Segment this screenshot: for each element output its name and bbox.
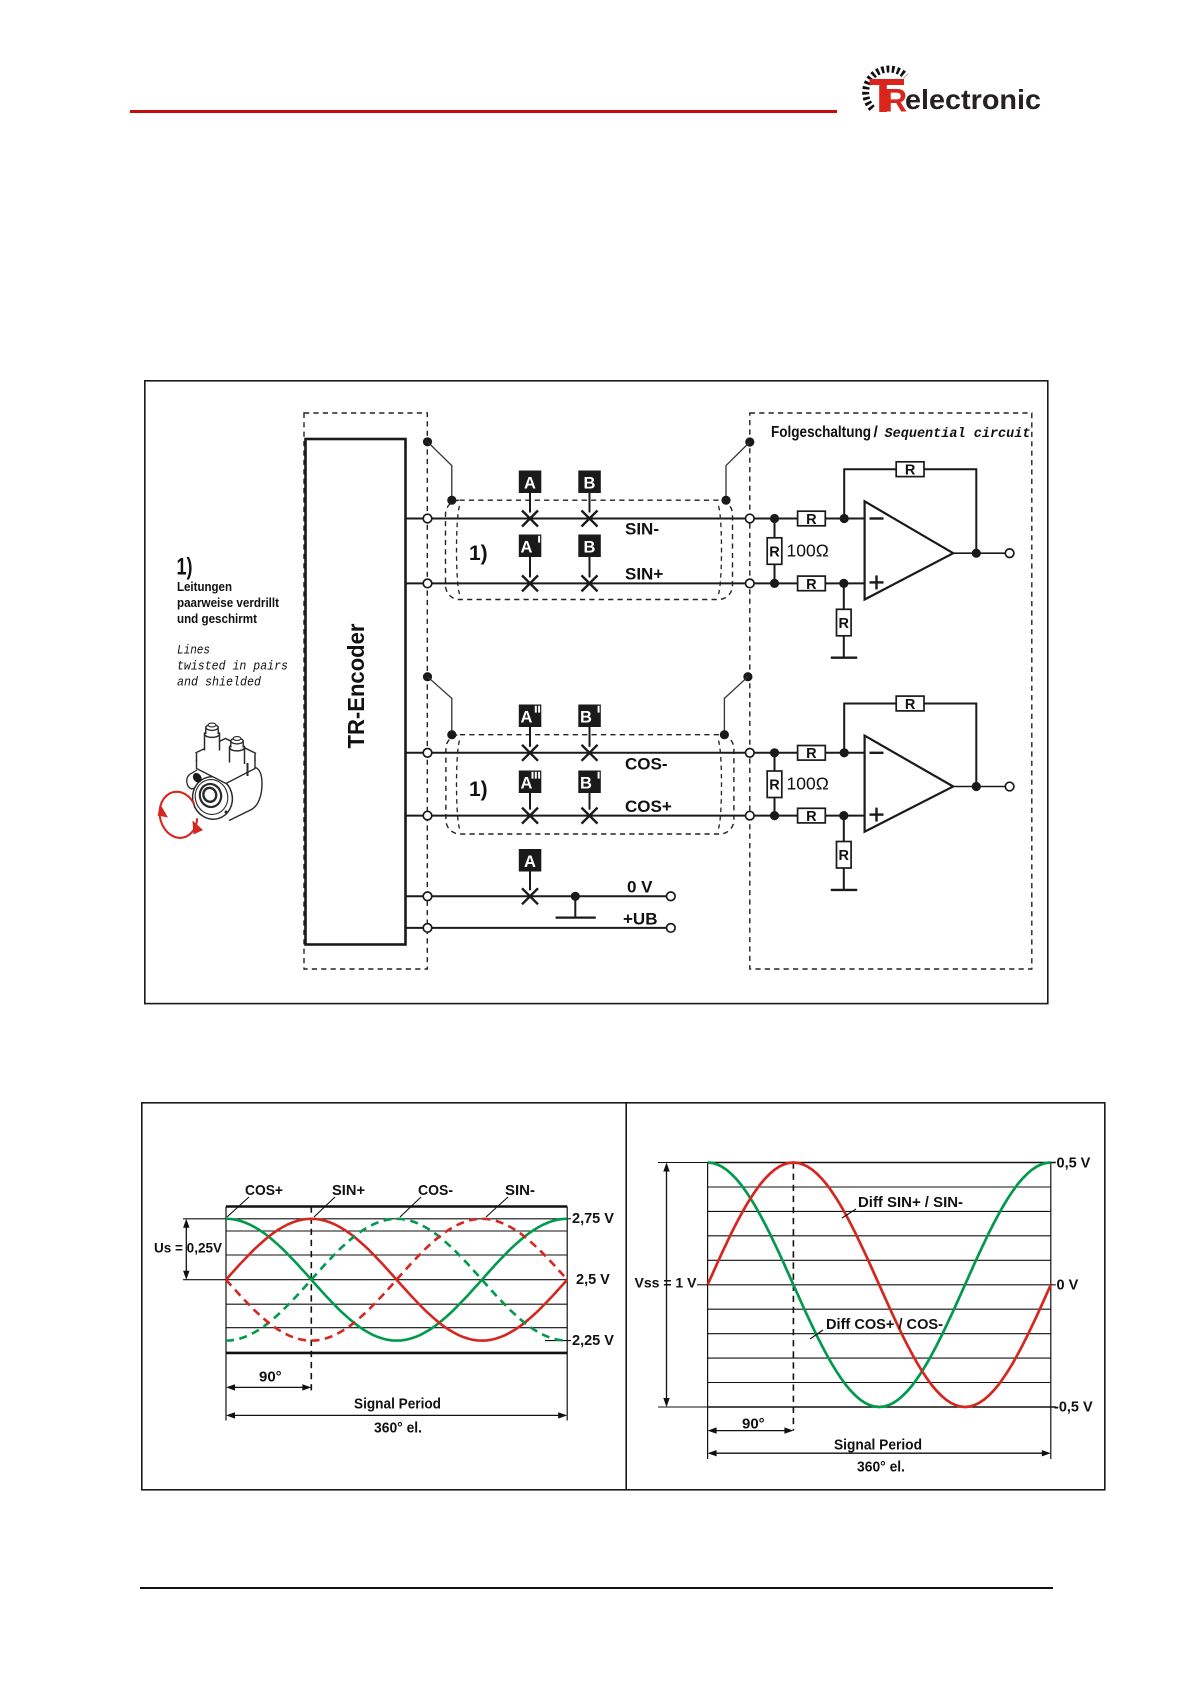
svg-text:R: R [905, 463, 916, 479]
left chart frame [226, 1205, 567, 1208]
curve COS+ [226, 1219, 567, 1341]
svg-text:paarweise verdrillt: paarweise verdrillt [177, 595, 280, 610]
tap A on 0V [529, 872, 531, 891]
curve Diff COS [708, 1163, 1051, 1408]
junction U1 plus-input divider node [839, 579, 848, 588]
circuit input terminal COS- [746, 749, 755, 758]
curve Diff SIN [708, 1163, 1051, 1408]
svg-text:R: R [806, 809, 817, 825]
junction U1 non-inverting input node [770, 579, 779, 588]
shield capsule SIN pinch ends [457, 506, 460, 594]
right chart gridlines [708, 1162, 1056, 1164]
terminal +UB [667, 924, 676, 933]
header red rule [130, 110, 837, 113]
svg-text:360° el.: 360° el. [374, 1420, 422, 1437]
wire +UB [406, 927, 671, 929]
svg-text:R: R [839, 616, 850, 632]
svg-text:360° el.: 360° el. [857, 1459, 905, 1476]
resistor R U2 inverting series [798, 746, 826, 761]
svg-text:Leitungen: Leitungen [177, 579, 232, 594]
svg-text:COS+: COS+ [245, 1182, 283, 1199]
svg-text:A: A [521, 709, 533, 727]
svg-text:Diff SIN+ / SIN-: Diff SIN+ / SIN- [858, 1195, 963, 1211]
svg-text:Sequential circuit: Sequential circuit [885, 427, 1031, 442]
output node U1 [953, 552, 1005, 554]
junction U1 feedback node [840, 514, 849, 523]
left chart gridlines [226, 1218, 567, 1220]
svg-text:R: R [806, 577, 817, 593]
svg-text:1): 1) [177, 554, 193, 581]
ground 0V [574, 896, 576, 917]
svg-text:R: R [884, 83, 907, 119]
encoder pin SIN+ [423, 579, 432, 588]
outer frame [145, 381, 1048, 1004]
junction U2 feedback node [840, 748, 849, 757]
svg-text:R: R [806, 512, 817, 528]
svg-text:COS-: COS- [418, 1182, 453, 1199]
Us annotation [183, 1218, 226, 1220]
svg-text:A: A [524, 475, 536, 493]
svg-text:1): 1) [469, 778, 488, 801]
curve labels [227, 1197, 249, 1217]
wire SIN+ [406, 582, 865, 584]
tap A′′′ on COS+ [529, 793, 531, 810]
shield drain switch COS right [743, 672, 752, 681]
svg-text:B: B [580, 775, 592, 793]
ground U2 [831, 889, 857, 891]
sequential circuit dashed box [750, 413, 1032, 969]
junction U2 non-inverting input node [770, 811, 779, 820]
tap B on SIN+ [589, 557, 591, 577]
encoder picture [187, 723, 262, 824]
wire 0V [406, 895, 671, 897]
shield drain switch SIN left [423, 437, 432, 446]
svg-text:R: R [769, 544, 780, 560]
encoder pin +UB [423, 924, 432, 933]
svg-text:COS-: COS- [625, 755, 668, 774]
output node U2 [953, 786, 1005, 788]
TR electronic logo [855, 62, 1055, 120]
rotation arrow [160, 792, 198, 838]
svg-text:2,25 V: 2,25 V [572, 1333, 614, 1349]
svg-text:B: B [584, 475, 596, 493]
junction 0V [571, 892, 580, 901]
shield capsule COS pair [446, 735, 734, 834]
svg-text:R: R [905, 697, 916, 713]
encoder shield dashed box [304, 413, 427, 969]
curve COS- [226, 1219, 567, 1341]
resistor R U2 to ground [843, 816, 845, 890]
feedback resistor R U2 [844, 704, 976, 787]
op-amp U1 [865, 501, 954, 599]
op-amp U2 [865, 736, 954, 832]
svg-text:TR-Encoder: TR-Encoder [343, 624, 369, 749]
shield drain switch SIN right [745, 437, 754, 446]
resistor 100R U2 input termination [774, 753, 776, 816]
svg-text:R: R [806, 746, 817, 762]
tap A′ on SIN+ [529, 557, 531, 577]
tap A′′ on COS- [529, 727, 531, 747]
tap B′ on COS- [589, 727, 591, 747]
resistor R U2 non-inverting series [798, 808, 826, 823]
shield capsule SIN pair [446, 500, 733, 599]
tap B on SIN- [589, 493, 591, 513]
footer rule [140, 1587, 1053, 1589]
svg-text:SIN-: SIN- [625, 520, 659, 539]
circuit input terminal SIN- [746, 514, 755, 523]
svg-text:B: B [580, 709, 592, 727]
svg-text:1): 1) [469, 542, 488, 565]
svg-text:0,5 V: 0,5 V [1057, 1156, 1091, 1172]
svg-text:SIN-: SIN- [505, 1182, 535, 1199]
junction U2 inverting input node [770, 748, 779, 757]
circuit input terminal SIN+ [746, 579, 755, 588]
terminal 0V [667, 892, 676, 901]
waveform figure box [141, 1102, 1106, 1491]
shield drain switch COS left [423, 672, 432, 681]
svg-text:100Ω: 100Ω [787, 774, 829, 794]
svg-text:2,5 V: 2,5 V [576, 1272, 610, 1288]
ground U1 [831, 657, 857, 659]
circuit diagram box [144, 380, 1049, 1005]
svg-text:R: R [839, 848, 850, 864]
90 deg dashed marker [310, 1207, 312, 1393]
encoder pin COS- [423, 749, 432, 758]
TR-Encoder block [306, 439, 406, 945]
svg-text:und geschirmt: und geschirmt [177, 611, 258, 626]
junction U2 plus-input divider node [839, 811, 848, 820]
encoder pin COS+ [423, 811, 432, 820]
svg-text:A: A [521, 539, 533, 557]
resistor R U1 to ground [843, 583, 845, 657]
svg-text:SIN+: SIN+ [332, 1182, 365, 1199]
svg-text:Lines: Lines [177, 644, 210, 658]
encoder pin SIN- [423, 514, 432, 523]
svg-text:A: A [524, 853, 536, 871]
circuit input terminal COS+ [746, 811, 755, 820]
svg-text:Diff COS+ / COS-: Diff COS+ / COS- [826, 1317, 943, 1333]
svg-text:2,75 V: 2,75 V [572, 1211, 614, 1227]
tap B′ on COS+ [589, 793, 591, 810]
tap A on SIN- [529, 493, 531, 513]
svg-text:COS+: COS+ [625, 797, 672, 816]
svg-text:-0,5 V: -0,5 V [1054, 1400, 1093, 1416]
svg-text:/: / [874, 424, 879, 441]
panel divider [625, 1103, 627, 1490]
resistor R U1 inverting series [798, 511, 826, 526]
wire COS- [406, 752, 865, 754]
Vss annotation [658, 1162, 708, 1164]
svg-text:and shielded: and shielded [177, 676, 261, 690]
svg-text:electronic: electronic [905, 84, 1041, 115]
svg-text:0 V: 0 V [627, 878, 653, 897]
svg-text:0 V: 0 V [1057, 1277, 1079, 1293]
shield capsule COS pinch ends [457, 741, 460, 829]
svg-text:100Ω: 100Ω [787, 541, 829, 561]
curve SIN- [226, 1219, 567, 1341]
svg-text:Us = 0,25V: Us = 0,25V [154, 1241, 222, 1256]
wire COS+ [406, 815, 865, 817]
svg-text:90°: 90° [259, 1369, 282, 1386]
90 deg dashed marker right [792, 1163, 794, 1431]
svg-text:twisted in pairs: twisted in pairs [177, 660, 288, 674]
svg-text:Signal Period: Signal Period [834, 1437, 922, 1454]
junction U1 inverting input node [770, 514, 779, 523]
feedback resistor R U1 [844, 469, 976, 553]
svg-text:Signal Period: Signal Period [354, 1396, 441, 1413]
svg-text:B: B [584, 539, 596, 557]
svg-text:Folgeschaltung: Folgeschaltung [771, 424, 871, 441]
svg-text:A: A [521, 775, 533, 793]
curve SIN+ [226, 1219, 567, 1341]
resistor R U1 non-inverting series [798, 576, 826, 591]
diff labels [842, 1209, 856, 1218]
svg-text:+UB: +UB [623, 910, 657, 929]
svg-text:R: R [769, 778, 780, 794]
wire SIN- [406, 518, 865, 520]
resistor 100R U1 input termination [774, 519, 776, 584]
svg-text:SIN+: SIN+ [625, 565, 663, 584]
encoder pin 0V [423, 892, 432, 901]
svg-text:Vss = 1 V: Vss = 1 V [635, 1275, 698, 1291]
